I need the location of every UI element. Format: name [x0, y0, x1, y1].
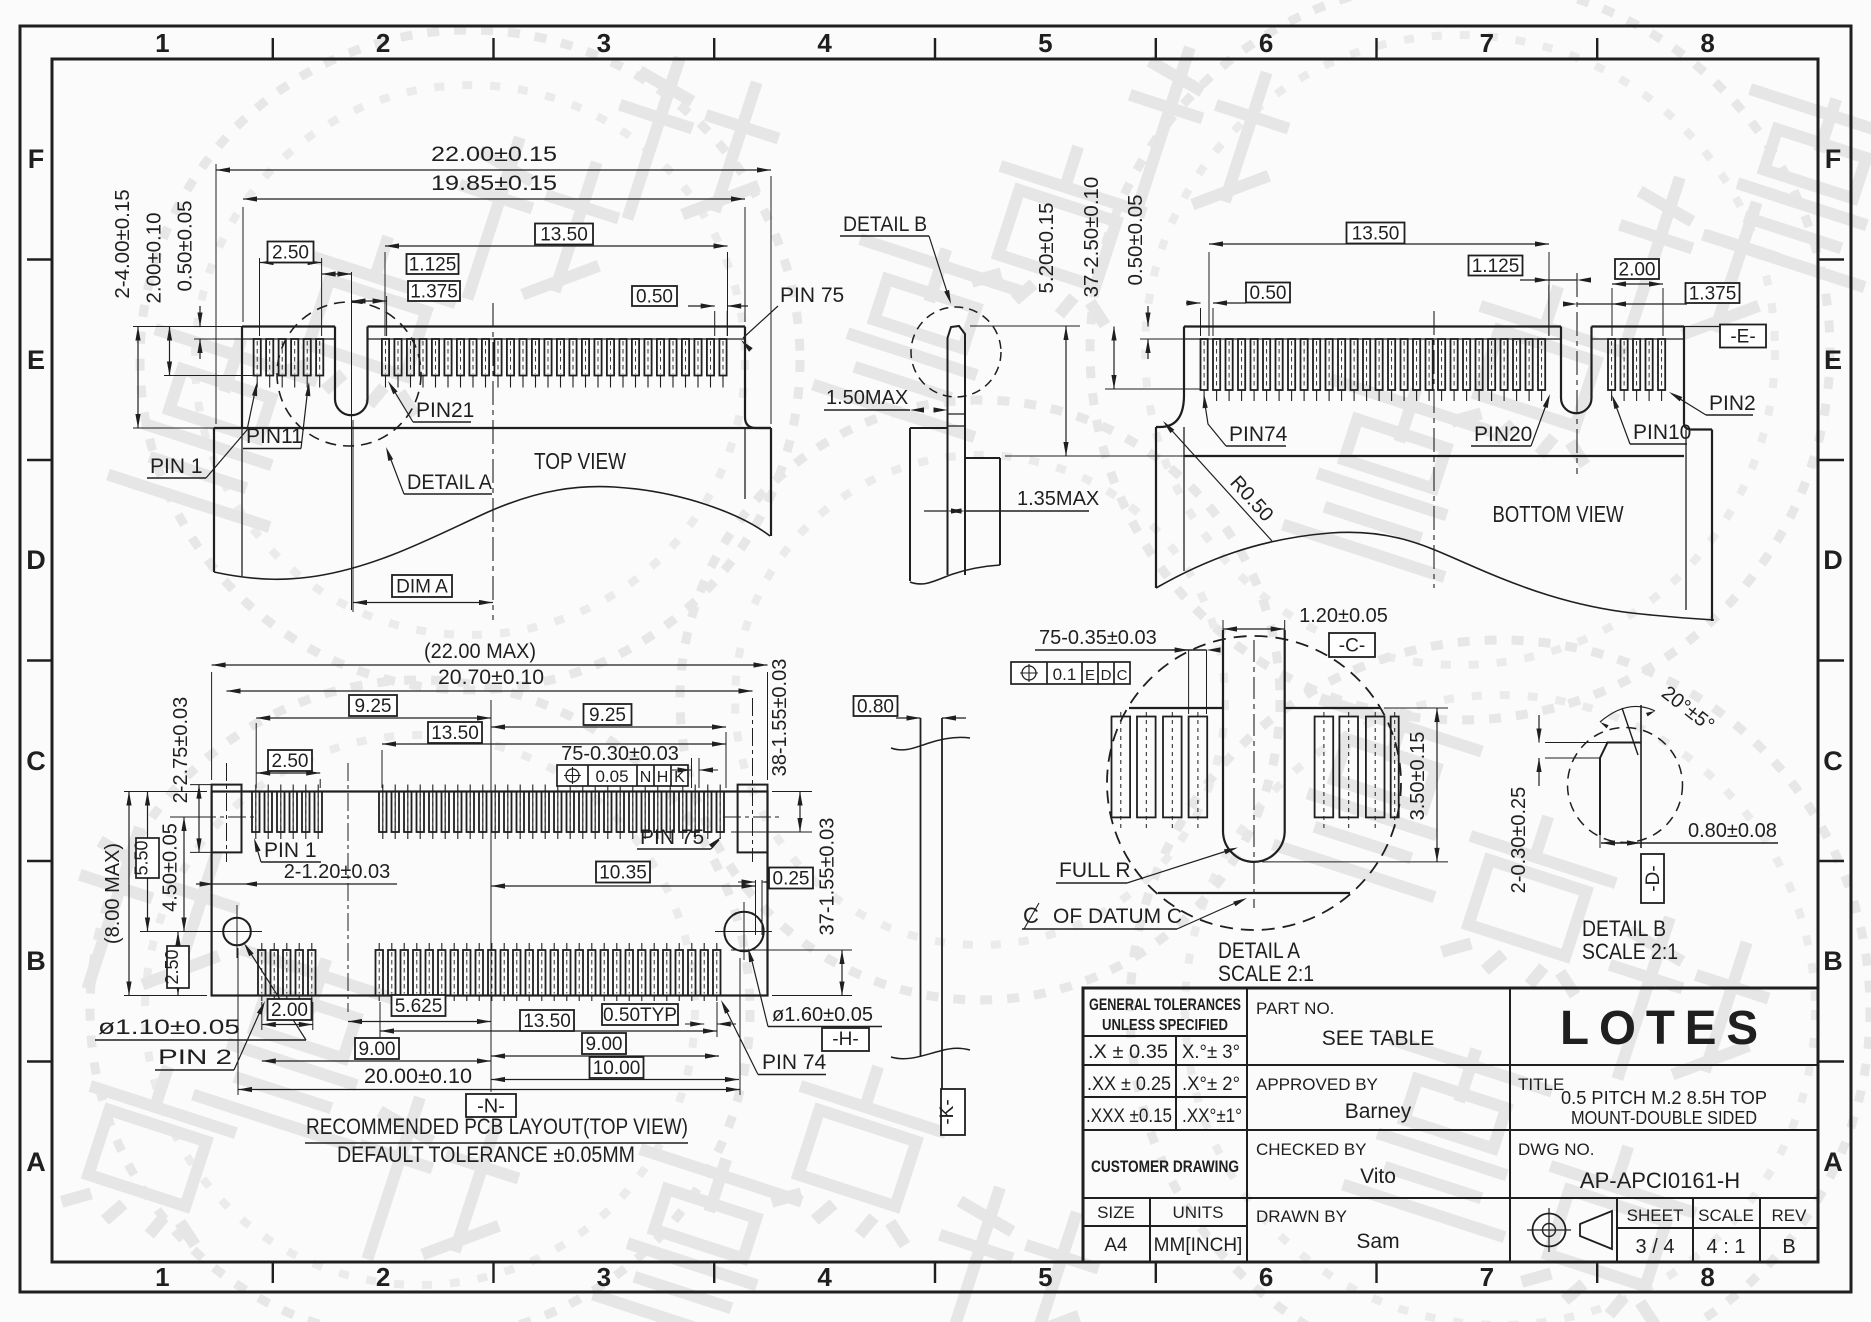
svg-text:4 : 1: 4 : 1	[1707, 1236, 1746, 1258]
RECOMMENDED PCB LAYOUT (TOP VIEW): pads, mounting holes, datum -N-	[212, 792, 768, 996]
svg-text:2.50: 2.50	[272, 243, 309, 264]
svg-text:2.00±0.10: 2.00±0.10	[143, 212, 166, 303]
svg-text:B: B	[1782, 1236, 1795, 1258]
svg-text:E: E	[1824, 345, 1842, 375]
svg-text:TITLE: TITLE	[1518, 1075, 1564, 1094]
svg-text:0.80: 0.80	[857, 697, 894, 718]
svg-text:PIN 1: PIN 1	[150, 455, 203, 478]
BOTTOM VIEW of connector: housing, notch, pin comb 74-2, dims, -E- datum	[1184, 325, 1561, 327]
svg-text:2.50: 2.50	[272, 751, 309, 772]
svg-text:.X°± 2°: .X°± 2°	[1182, 1074, 1240, 1095]
svg-text:PIN 75: PIN 75	[780, 284, 844, 307]
svg-text:1.20±0.05: 1.20±0.05	[1299, 605, 1388, 627]
svg-text:PIN 75: PIN 75	[640, 826, 704, 849]
svg-text:-E-: -E-	[1730, 327, 1755, 348]
svg-text:9.00: 9.00	[586, 1034, 623, 1055]
svg-text:DETAIL B: DETAIL B	[1582, 916, 1666, 941]
svg-text:DRAWN BY: DRAWN BY	[1256, 1207, 1347, 1226]
svg-text:37-1.55±0.03: 37-1.55±0.03	[817, 818, 839, 936]
svg-text:BOTTOM VIEW: BOTTOM VIEW	[1493, 501, 1624, 527]
svg-text:FULL R: FULL R	[1059, 859, 1131, 882]
svg-text:5: 5	[1038, 1262, 1052, 1292]
svg-text:0.80±0.08: 0.80±0.08	[1688, 820, 1777, 842]
svg-text:1.125: 1.125	[1472, 256, 1520, 277]
svg-text:.XX ± 0.25: .XX ± 0.25	[1087, 1074, 1171, 1095]
svg-text:1: 1	[155, 1262, 169, 1292]
svg-text:DEFAULT TOLERANCE ±0.05MM: DEFAULT TOLERANCE ±0.05MM	[337, 1142, 635, 1167]
svg-text:F: F	[28, 144, 45, 174]
svg-text:0.50±0.05: 0.50±0.05	[1124, 194, 1147, 285]
svg-text:2-2.75±0.03: 2-2.75±0.03	[170, 697, 192, 804]
svg-text:3 / 4: 3 / 4	[1636, 1236, 1675, 1258]
svg-text:1.50MAX: 1.50MAX	[826, 387, 908, 409]
svg-text:SCALE 2:1: SCALE 2:1	[1582, 939, 1678, 964]
svg-text:13.50: 13.50	[540, 225, 588, 246]
svg-text:Barney: Barney	[1345, 1100, 1412, 1123]
svg-text:38-1.55±0.03: 38-1.55±0.03	[769, 659, 791, 777]
svg-text:-C-: -C-	[1339, 636, 1365, 657]
svg-text:B: B	[1823, 946, 1843, 976]
TOP VIEW of M.2 connector: housing, key slot, pin comb 1-75, dimensions	[242, 325, 335, 327]
svg-text:Vito: Vito	[1360, 1165, 1396, 1188]
svg-text:75-0.35±0.03: 75-0.35±0.03	[1039, 627, 1157, 649]
svg-text:8: 8	[1700, 28, 1714, 58]
svg-text:0.50TYP: 0.50TYP	[603, 1005, 677, 1026]
svg-text:0.50±0.05: 0.50±0.05	[174, 200, 197, 291]
svg-text:E: E	[27, 345, 45, 375]
svg-text:19.85±0.15: 19.85±0.15	[431, 172, 557, 195]
svg-text:RECOMMENDED PCB LAYOUT(TOP: RECOMMENDED PCB LAYOUT(TOP VIEW)	[306, 1114, 688, 1139]
svg-text:C: C	[1823, 746, 1843, 776]
svg-text:DETAIL B: DETAIL B	[843, 213, 927, 236]
svg-text:0.50: 0.50	[636, 287, 673, 308]
svg-text:4.50±0.05: 4.50±0.05	[160, 823, 182, 912]
svg-text:APPROVED BY: APPROVED BY	[1256, 1075, 1378, 1094]
svg-text:37-2.50±0.10: 37-2.50±0.10	[1080, 177, 1103, 298]
svg-text:2.50: 2.50	[162, 949, 182, 984]
svg-text:DETAIL A: DETAIL A	[407, 471, 492, 494]
svg-text:LOTES: LOTES	[1560, 1002, 1768, 1055]
svg-text:REV: REV	[1772, 1206, 1808, 1225]
DETAIL B SCALE 2:1: pin tip closeup, 20 deg chamfer, datum -D-	[1568, 728, 1683, 843]
svg-text:1.375: 1.375	[410, 282, 458, 303]
svg-text:20.70±0.10: 20.70±0.10	[438, 666, 544, 689]
svg-text:A: A	[1823, 1147, 1843, 1177]
svg-text:X.°± 3°: X.°± 3°	[1182, 1042, 1240, 1063]
svg-text:5.50: 5.50	[132, 840, 152, 875]
svg-text:1.125: 1.125	[409, 255, 457, 276]
svg-text:ø1.60±0.05: ø1.60±0.05	[772, 1004, 873, 1026]
svg-text:2: 2	[376, 28, 390, 58]
svg-text:2-4.00±0.15: 2-4.00±0.15	[111, 189, 134, 298]
svg-text:2-1.20±0.03: 2-1.20±0.03	[284, 861, 391, 883]
svg-text:OF DATUM C: OF DATUM C	[1053, 905, 1182, 928]
svg-text:0.50: 0.50	[1250, 283, 1287, 304]
DETAIL A SCALE 2:1: key slot closeup, FULL R, datum C centerline	[1107, 636, 1401, 930]
svg-text:4: 4	[817, 1262, 832, 1292]
svg-text:DWG NO.: DWG NO.	[1518, 1140, 1595, 1159]
svg-text:9.25: 9.25	[355, 696, 392, 717]
svg-text:Sam: Sam	[1356, 1230, 1399, 1253]
svg-text:CUSTOMER DRAWING: CUSTOMER DRAWING	[1091, 1158, 1239, 1176]
svg-text:C: C	[1117, 667, 1128, 684]
svg-text:UNITS: UNITS	[1173, 1203, 1224, 1222]
svg-text:AP-APCI0161-H: AP-APCI0161-H	[1580, 1168, 1740, 1193]
svg-text:5.625: 5.625	[395, 996, 443, 1017]
svg-text:PIN20: PIN20	[1474, 423, 1532, 446]
svg-text:(22.00 MAX): (22.00 MAX)	[424, 640, 536, 663]
svg-text:3.50±0.15: 3.50±0.15	[1407, 732, 1429, 821]
svg-text:5: 5	[1038, 28, 1052, 58]
svg-text:3: 3	[597, 1262, 611, 1292]
svg-text:10.35: 10.35	[599, 863, 647, 884]
svg-text:13.50: 13.50	[1352, 224, 1400, 245]
svg-text:0.25: 0.25	[773, 869, 810, 890]
svg-text:SHEET: SHEET	[1627, 1206, 1684, 1225]
svg-text:DIM A: DIM A	[396, 577, 448, 598]
svg-text:1.35MAX: 1.35MAX	[1017, 488, 1099, 510]
svg-text:2-0.30±0.25: 2-0.30±0.25	[1508, 787, 1530, 894]
svg-text:0.1: 0.1	[1053, 665, 1077, 684]
svg-text:5.20±0.15: 5.20±0.15	[1035, 202, 1058, 293]
svg-text:B: B	[26, 946, 46, 976]
svg-text:8: 8	[1700, 1262, 1714, 1292]
svg-text:2.00: 2.00	[1619, 260, 1656, 281]
svg-text:A: A	[26, 1147, 46, 1177]
svg-text:9.00: 9.00	[359, 1039, 396, 1060]
svg-text:D: D	[26, 545, 46, 575]
svg-text:CHECKED BY: CHECKED BY	[1256, 1140, 1367, 1159]
svg-text:13.50: 13.50	[523, 1011, 571, 1032]
svg-text:0.05: 0.05	[595, 767, 628, 786]
svg-text:SCALE 2:1: SCALE 2:1	[1218, 961, 1314, 986]
section strip at datum -K- with 0.80 width dim	[854, 696, 898, 716]
svg-text:PIN 2: PIN 2	[158, 1046, 232, 1069]
svg-text:PIN2: PIN2	[1709, 392, 1756, 415]
svg-text:22.00±0.15: 22.00±0.15	[431, 143, 557, 166]
svg-text:75-0.30±0.03: 75-0.30±0.03	[561, 743, 679, 765]
svg-text:6: 6	[1259, 1262, 1273, 1292]
svg-text:A4: A4	[1104, 1235, 1128, 1256]
svg-text:.XX°±1°: .XX°±1°	[1182, 1106, 1242, 1127]
svg-text:2.00: 2.00	[271, 1000, 308, 1021]
svg-text:PIN74: PIN74	[1229, 423, 1288, 446]
svg-text:SEE TABLE: SEE TABLE	[1322, 1027, 1434, 1050]
svg-text:SIZE: SIZE	[1097, 1203, 1135, 1222]
svg-text:UNLESS SPECIFIED: UNLESS SPECIFIED	[1102, 1017, 1228, 1034]
svg-text:PIN 1: PIN 1	[264, 839, 317, 862]
svg-text:D: D	[1823, 545, 1843, 575]
svg-text:MM[INCH]: MM[INCH]	[1154, 1235, 1243, 1256]
svg-text:PIN10: PIN10	[1633, 421, 1691, 444]
svg-text:0.5 PITCH M.2 8.5H TOP: 0.5 PITCH M.2 8.5H TOP	[1561, 1087, 1767, 1108]
svg-text:-K-: -K-	[937, 1099, 958, 1124]
svg-text:1: 1	[155, 28, 169, 58]
svg-text:1.375: 1.375	[1689, 284, 1737, 305]
svg-text:C: C	[26, 746, 46, 776]
title block: tolerances table, PART NO. SEE TABLE, LOTES logo, title, DWG NO. AP-APCI0161-H	[1083, 988, 1818, 1262]
svg-text:9.25: 9.25	[589, 705, 626, 726]
svg-text:PART NO.: PART NO.	[1256, 999, 1334, 1018]
svg-text:7: 7	[1480, 28, 1494, 58]
svg-text:(8.00 MAX): (8.00 MAX)	[102, 843, 124, 944]
svg-text:GENERAL TOLERANCES: GENERAL TOLERANCES	[1089, 996, 1241, 1014]
svg-text:DETAIL A: DETAIL A	[1218, 938, 1300, 963]
svg-text:PIN11: PIN11	[246, 425, 303, 448]
svg-text:2: 2	[376, 1262, 390, 1292]
svg-text:-D-: -D-	[1643, 865, 1664, 891]
svg-text:TOP VIEW: TOP VIEW	[534, 448, 626, 474]
svg-text:F: F	[1825, 144, 1842, 174]
svg-text:13.50: 13.50	[431, 723, 479, 744]
svg-text:ø1.10±0.05: ø1.10±0.05	[98, 1016, 240, 1039]
svg-text:7: 7	[1480, 1262, 1494, 1292]
svg-text:MOUNT-DOUBLE SIDED: MOUNT-DOUBLE SIDED	[1571, 1107, 1757, 1128]
svg-text:PIN 74: PIN 74	[762, 1051, 827, 1074]
svg-text:H: H	[657, 769, 669, 786]
svg-text:.X ± 0.35: .X ± 0.35	[1088, 1042, 1168, 1063]
svg-text:10.00: 10.00	[593, 1058, 641, 1079]
svg-text:E: E	[1085, 667, 1095, 684]
svg-text:-H-: -H-	[832, 1029, 858, 1050]
svg-text:N: N	[640, 769, 652, 786]
svg-text:D: D	[1101, 667, 1112, 684]
svg-text:.XXX ±0.15: .XXX ±0.15	[1086, 1106, 1172, 1127]
svg-text:PIN21: PIN21	[416, 399, 474, 422]
svg-text:6: 6	[1259, 28, 1273, 58]
svg-text:20.00±0.10: 20.00±0.10	[364, 1065, 472, 1088]
svg-text:4: 4	[817, 28, 832, 58]
svg-text:3: 3	[597, 28, 611, 58]
svg-text:SCALE: SCALE	[1698, 1206, 1754, 1225]
